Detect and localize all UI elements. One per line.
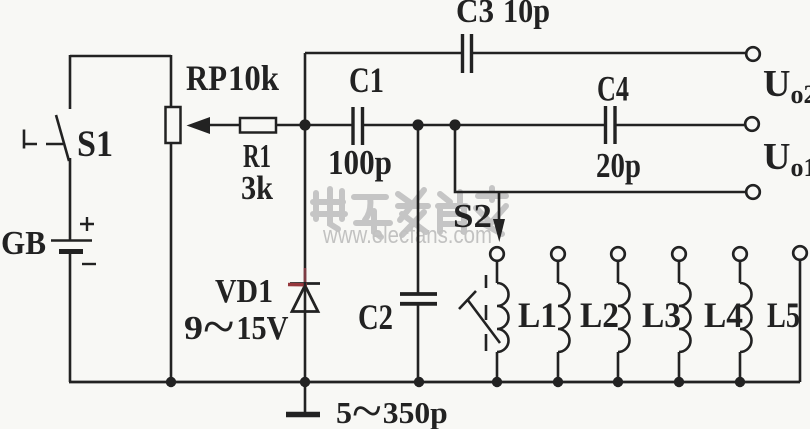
svg-text:C3: C3 xyxy=(456,0,494,30)
terminal circle far right xyxy=(793,246,807,260)
inductor L2 terminal circle xyxy=(551,247,565,261)
junction dot rail L1 xyxy=(492,377,502,387)
wire C2 branch upper xyxy=(417,125,420,294)
watermark xyxy=(313,188,506,249)
junction dot rail L4 xyxy=(674,377,684,387)
junction dot C2 branch xyxy=(412,119,423,130)
svg-text:S1: S1 xyxy=(77,124,113,165)
inductor L5 terminal circle xyxy=(733,247,747,261)
switch S2 arrow xyxy=(493,192,505,242)
inductor L1 xyxy=(497,261,509,382)
svg-text:L3: L3 xyxy=(642,295,681,335)
wire top-left loop xyxy=(70,55,171,58)
wire far right branch xyxy=(799,260,802,382)
inductor L5 xyxy=(740,261,752,382)
terminal circle middle (Uo1 row) xyxy=(745,117,759,131)
svg-text:C1: C1 xyxy=(349,60,384,100)
core dashes of L1 xyxy=(485,275,488,351)
red mark on VD1 xyxy=(288,283,307,287)
junction dot rail RP xyxy=(166,377,176,387)
wire vertical main node to top row xyxy=(304,53,307,125)
svg-text:10k: 10k xyxy=(228,58,279,98)
capacitor C1 xyxy=(353,107,363,145)
wiper arrow of RP xyxy=(187,117,241,134)
junction dot rail L2 xyxy=(553,377,563,387)
capacitor C3 xyxy=(463,34,472,73)
battery GB xyxy=(51,217,96,264)
svg-text:GB: GB xyxy=(1,225,46,262)
terminal circle top (Uo2 row) xyxy=(746,47,760,61)
inductor L4 xyxy=(679,261,691,382)
node A junction dot xyxy=(299,119,310,130)
svg-text:S2: S2 xyxy=(453,198,492,235)
inductor L3 terminal circle xyxy=(611,247,625,261)
wire RP top xyxy=(170,55,173,107)
inductor L1 terminal circle xyxy=(490,247,504,261)
svg-text:L2: L2 xyxy=(580,295,619,335)
svg-text:100p: 100p xyxy=(328,143,392,182)
capacitor C2 xyxy=(400,294,437,304)
wire diode to rail and ground xyxy=(304,282,307,412)
wire middle row xyxy=(362,124,744,127)
ground xyxy=(286,412,320,418)
wire top row (C3 row) xyxy=(305,52,747,55)
wire node A down to diode xyxy=(304,125,307,282)
svg-text:10p: 10p xyxy=(503,0,550,30)
wire battery to rail xyxy=(69,251,72,382)
junction dot rail C2 xyxy=(414,377,424,387)
inductor L2 xyxy=(558,261,570,382)
bottom rail wire xyxy=(69,381,800,384)
junction dot third row branch xyxy=(449,119,460,130)
svg-text:3k: 3k xyxy=(241,170,273,207)
wire third output row xyxy=(455,125,746,192)
terminal circle third row xyxy=(746,185,760,199)
zener diode VD1 xyxy=(290,284,320,312)
potentiometer RP xyxy=(166,107,181,143)
wire S1 to battery xyxy=(69,158,72,240)
junction dot rail VD1 xyxy=(300,377,310,387)
svg-text:L4: L4 xyxy=(704,295,743,335)
junction dot rail L5 xyxy=(735,377,745,387)
resistor R1 xyxy=(240,118,353,133)
svg-text:C4: C4 xyxy=(597,69,629,109)
junction dot rail L3 xyxy=(613,377,623,387)
svg-text:L5: L5 xyxy=(767,295,800,335)
svg-text:20p: 20p xyxy=(596,146,641,185)
wire RP bottom xyxy=(170,143,173,382)
adjust arrow of L1 xyxy=(459,291,500,343)
svg-text:RP: RP xyxy=(186,58,227,98)
inductor L4 terminal circle xyxy=(672,247,686,261)
capacitor C4 xyxy=(606,106,616,144)
switch S1 xyxy=(24,115,69,161)
wire left branch upper xyxy=(69,55,72,109)
svg-text:L1: L1 xyxy=(518,295,557,335)
inductor L3 xyxy=(618,261,630,382)
svg-text:C2: C2 xyxy=(358,297,393,337)
wire C2 branch lower xyxy=(417,305,420,382)
